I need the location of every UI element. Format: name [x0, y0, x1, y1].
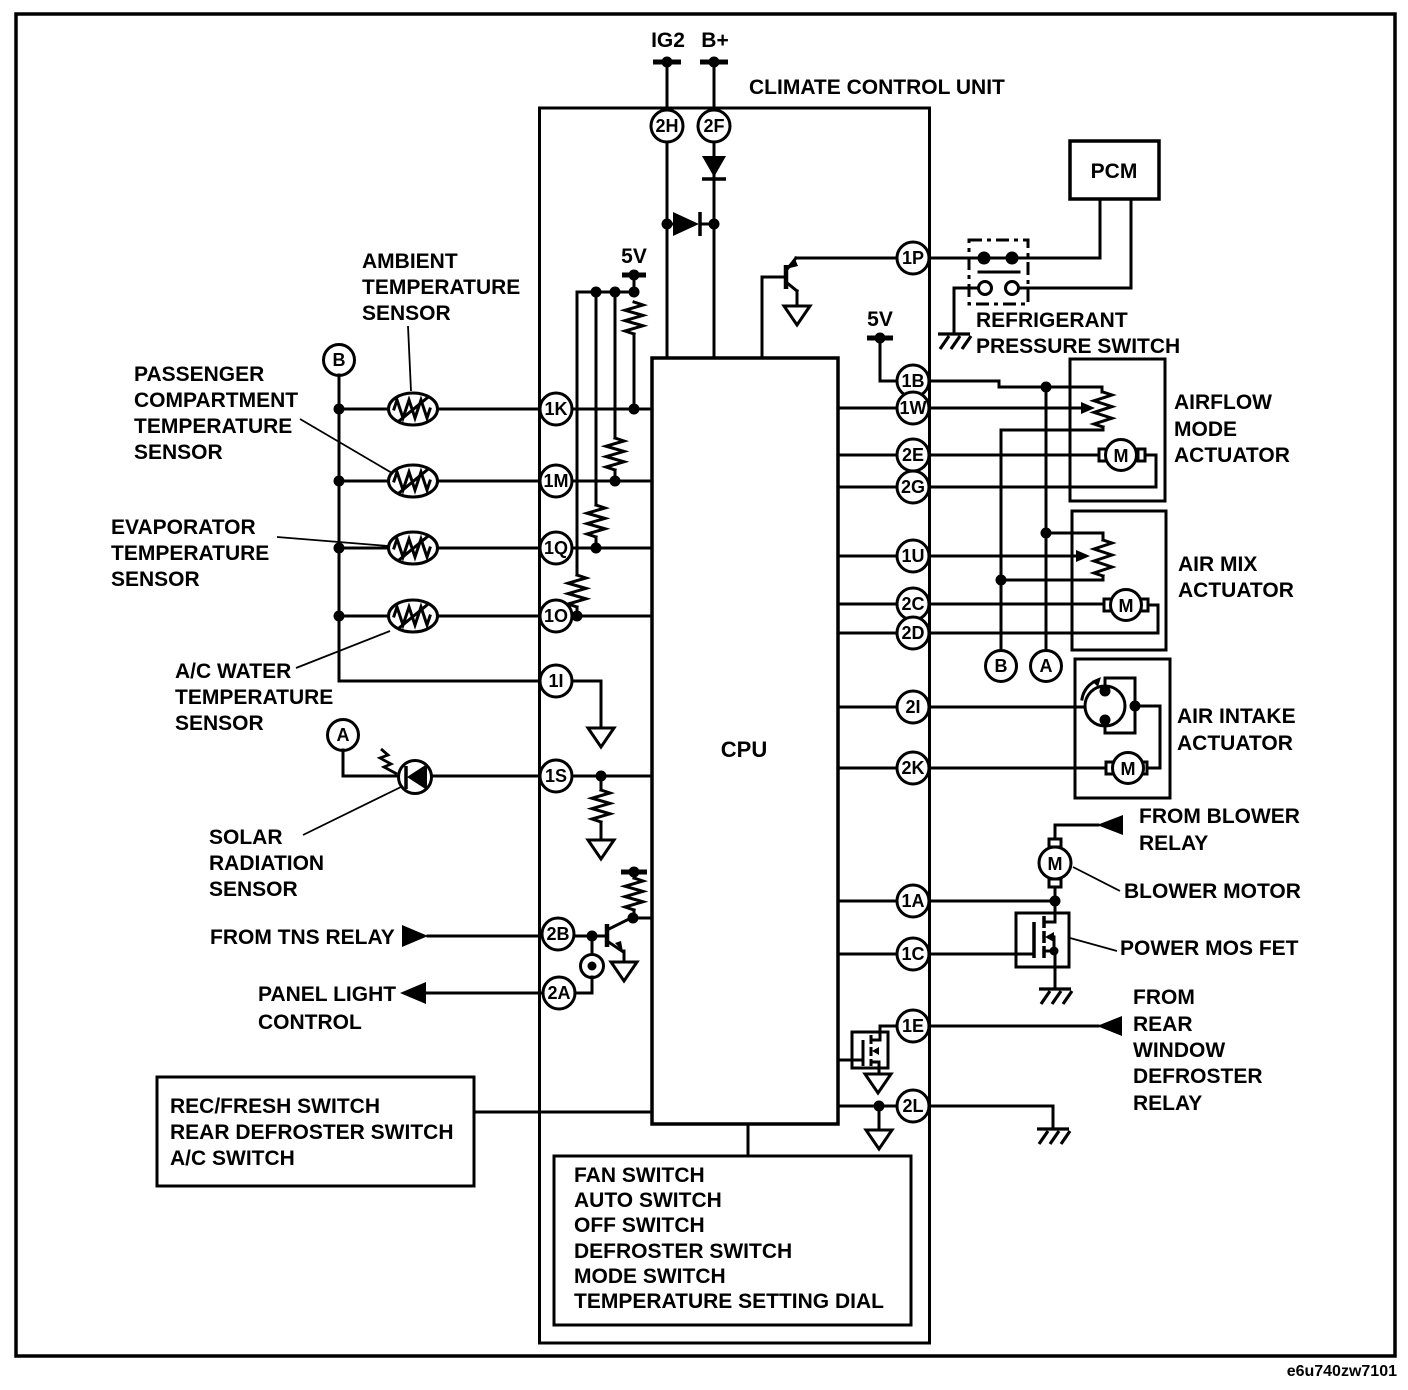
svg-text:PCM: PCM	[1091, 160, 1138, 183]
connector 1W	[897, 392, 929, 424]
svg-text:1Q: 1Q	[544, 538, 568, 558]
chassis ground (pressure switch)	[938, 334, 971, 349]
resistor R5 (1M pull-up)	[606, 438, 624, 470]
motor M1 (airflow mode)	[1099, 440, 1145, 471]
junction on 2H line	[662, 219, 673, 230]
wire pull-up leg 1Q	[595, 292, 598, 505]
svg-text:2I: 2I	[905, 697, 920, 717]
arrow from rear window defroster relay	[1097, 1016, 1122, 1036]
junction 1M row	[610, 476, 621, 487]
svg-text:M: M	[1121, 759, 1136, 779]
power MOSFET Q2 box	[1016, 913, 1069, 967]
svg-text:e6u740zw7101: e6u740zw7101	[1287, 1363, 1397, 1380]
label AIR MIX ACTUATOR	[1178, 553, 1294, 602]
wire R8 to collector row	[633, 910, 636, 918]
svg-text:CONTROL: CONTROL	[258, 1011, 362, 1034]
callout power MOS FET	[1070, 938, 1117, 951]
diode D2 between 2H and 2F lines	[667, 212, 714, 236]
svg-text:M: M	[1048, 854, 1063, 874]
svg-text:2B: 2B	[546, 924, 569, 944]
callout ambient sensor	[408, 326, 411, 391]
svg-text:AUTO SWITCH: AUTO SWITCH	[574, 1189, 722, 1212]
wire 1Q row	[339, 547, 652, 550]
svg-text:SENSOR: SENSOR	[134, 441, 223, 464]
svg-text:SENSOR: SENSOR	[175, 712, 264, 735]
wire 1W row to airflow wiper	[838, 407, 1083, 410]
svg-text:1K: 1K	[544, 399, 567, 419]
connector 1S	[540, 760, 572, 792]
arrow to panel light control	[400, 982, 426, 1004]
svg-text:2E: 2E	[902, 445, 924, 465]
svg-text:2L: 2L	[902, 1096, 923, 1116]
connector 1B	[897, 365, 929, 397]
junction 1O row	[572, 611, 583, 622]
motor M3 (air intake)	[1106, 753, 1147, 784]
wire 2B row from TNS arrow	[428, 935, 592, 938]
wire CPU to keypad box	[747, 1124, 750, 1156]
connector 2C	[897, 588, 929, 620]
svg-text:POWER MOS FET: POWER MOS FET	[1120, 937, 1299, 960]
svg-text:IG2: IG2	[651, 29, 685, 52]
pressure switch closed contacts	[978, 252, 1020, 273]
solar radiation sensor D3	[380, 749, 432, 794]
svg-text:1U: 1U	[901, 546, 924, 566]
connector 2D	[897, 617, 929, 649]
svg-text:2K: 2K	[901, 758, 924, 778]
wire 1E to MOSFET Q3 drain	[880, 1026, 913, 1032]
svg-text:PANEL LIGHT: PANEL LIGHT	[258, 983, 396, 1006]
svg-text:COMPARTMENT: COMPARTMENT	[134, 389, 298, 412]
junction rotary to motor	[1130, 701, 1141, 712]
svg-text:ACTUATOR: ACTUATOR	[1174, 444, 1290, 467]
svg-text:1P: 1P	[902, 248, 924, 268]
supply bar (panel light pull-up)	[621, 867, 647, 879]
PCM box	[1070, 141, 1159, 199]
connector 1I	[540, 665, 572, 697]
CPU U1 box	[652, 358, 838, 1124]
wire air mix resistor bottom	[1001, 576, 1103, 580]
wire node A to 1S row	[343, 750, 652, 776]
svg-text:2F: 2F	[703, 116, 724, 136]
svg-text:FAN SWITCH: FAN SWITCH	[574, 1164, 705, 1187]
junction node A feed	[1041, 382, 1052, 393]
svg-text:SENSOR: SENSOR	[209, 878, 298, 901]
callout blower motor	[1073, 867, 1120, 891]
wire 2A row from panel light arrow	[426, 992, 575, 995]
connector 1K	[540, 393, 572, 425]
terminal B+	[700, 29, 729, 68]
svg-text:SENSOR: SENSOR	[111, 568, 200, 591]
resistor R7 (1S)	[592, 790, 610, 822]
wire 1S junction down	[600, 776, 603, 790]
svg-text:CLIMATE CONTROL UNIT: CLIMATE CONTROL UNIT	[749, 76, 1005, 99]
junction 5V rail x596	[591, 287, 602, 298]
terminal IG2	[651, 29, 685, 68]
svg-text:MODE: MODE	[1174, 418, 1237, 441]
connector 1Q	[540, 532, 572, 564]
wire 2K row to air intake motor	[838, 767, 1111, 770]
svg-text:1A: 1A	[901, 891, 924, 911]
callout evaporator sensor	[277, 537, 388, 546]
wire pressure switch to ground	[954, 288, 978, 333]
wire to air mix resistor top	[1046, 533, 1103, 540]
wire rotary junction to motor M3	[1135, 706, 1160, 768]
5V terminal (1B pull-up)	[867, 308, 893, 344]
diode D1 on B+ line	[702, 156, 726, 179]
connector 2K	[897, 752, 929, 784]
connector 1E	[897, 1010, 929, 1042]
svg-text:1S: 1S	[545, 766, 567, 786]
resistor R1 (airflow position)	[1094, 392, 1112, 427]
junction 5V rail x634	[629, 287, 640, 298]
wire 1P row	[796, 257, 913, 260]
connector 2L	[897, 1090, 929, 1122]
label PANEL LIGHT CONTROL	[258, 983, 396, 1034]
svg-text:BLOWER MOTOR: BLOWER MOTOR	[1124, 880, 1301, 903]
wire R4 to 1Q row	[595, 537, 598, 548]
refrigerant pressure switch S1 dashed box	[969, 240, 1028, 304]
wire pull-up leg 1M	[614, 292, 617, 438]
svg-text:2A: 2A	[547, 983, 570, 1003]
wiper arrow 1U	[1076, 550, 1090, 562]
wire Q4 collector to CPU	[631, 917, 652, 920]
rotary position switch (air intake)	[1082, 677, 1135, 733]
connector 2F	[698, 110, 730, 142]
junction 1S row	[596, 771, 607, 782]
label A/C WATER TEMPERATURE SENSOR	[175, 660, 333, 735]
svg-text:1M: 1M	[543, 471, 568, 491]
svg-text:FROM: FROM	[1133, 986, 1195, 1009]
wire 2L junction to ground	[878, 1106, 881, 1130]
node B circle	[986, 651, 1017, 682]
wire 2I row to air intake actuator	[838, 706, 1085, 709]
wire IG2 to CPU top via 2H	[666, 62, 669, 358]
wire 1I row	[339, 680, 601, 683]
wire R6 to 1K row	[633, 334, 636, 409]
junction 1Q row	[591, 543, 602, 554]
label SOLAR RADIATION SENSOR	[209, 826, 324, 901]
MOSFET Q3 box (rear defroster driver)	[852, 1032, 888, 1068]
wire 1A row to blower motor	[838, 900, 1055, 903]
junction 2L	[874, 1101, 885, 1112]
junction 1A node	[1050, 896, 1061, 907]
svg-text:TEMPERATURE: TEMPERATURE	[362, 276, 520, 299]
svg-text:M: M	[1114, 446, 1129, 466]
wire R5 to 1M row	[614, 470, 617, 481]
svg-text:1O: 1O	[544, 606, 568, 626]
label keypad switches	[574, 1164, 884, 1313]
svg-text:REAR DEFROSTER SWITCH: REAR DEFROSTER SWITCH	[170, 1121, 454, 1144]
svg-text:DEFROSTER SWITCH: DEFROSTER SWITCH	[574, 1240, 792, 1263]
svg-text:RELAY: RELAY	[1139, 832, 1208, 855]
junction B bus 1M	[334, 476, 345, 487]
svg-text:AIR MIX: AIR MIX	[1178, 553, 1257, 576]
callout solar sensor	[303, 786, 403, 835]
svg-text:CPU: CPU	[721, 737, 767, 762]
svg-text:ACTUATOR: ACTUATOR	[1178, 579, 1294, 602]
connector 2B	[542, 918, 574, 950]
resistor R8 (Q4 collector)	[625, 878, 643, 910]
connector 1O	[540, 600, 572, 632]
ground (Q3 source)	[865, 1074, 891, 1093]
thermistor passenger compartment temperature sensor	[389, 465, 438, 497]
svg-text:A: A	[1040, 656, 1053, 676]
MOSFET Q3 symbol	[863, 1032, 880, 1074]
ground (Q1 collector)	[784, 306, 810, 325]
svg-text:1W: 1W	[900, 398, 927, 418]
svg-text:B: B	[995, 656, 1008, 676]
wire 1E to rear defroster arrow	[929, 1025, 1098, 1028]
wire pressure switch to PCM	[1019, 199, 1131, 288]
connector 2H	[651, 110, 683, 142]
svg-text:REAR: REAR	[1133, 1013, 1193, 1036]
svg-text:FROM BLOWER: FROM BLOWER	[1139, 805, 1300, 828]
svg-text:A: A	[337, 725, 350, 745]
keypad box	[554, 1156, 911, 1325]
junction on 2F line	[709, 219, 720, 230]
wire R7 to ground	[600, 822, 603, 840]
wire 5V to 1B	[880, 338, 913, 381]
junction 5V rail x615	[610, 287, 621, 298]
wire blower motor to relay arrow	[1055, 825, 1098, 839]
svg-text:FROM TNS RELAY: FROM TNS RELAY	[210, 926, 395, 949]
wire 2D row to air mix motor return	[838, 605, 1158, 633]
svg-text:TEMPERATURE: TEMPERATURE	[134, 415, 292, 438]
resistor R6 (1K pull-up)	[625, 302, 643, 334]
chassis ground (power MOSFET source)	[1039, 989, 1072, 1004]
svg-text:OFF SWITCH: OFF SWITCH	[574, 1214, 705, 1237]
svg-text:REFRIGERANT: REFRIGERANT	[976, 309, 1128, 332]
wire 1I to ground	[600, 681, 603, 728]
resistor R3 (1O pull-up)	[568, 575, 586, 607]
node A circle	[1031, 651, 1062, 682]
wire 1B to actuator resistors	[929, 381, 1102, 392]
svg-text:SOLAR: SOLAR	[209, 826, 283, 849]
label EVAPORATOR TEMPERATURE SENSOR	[111, 516, 269, 591]
arrow from blower relay	[1097, 815, 1123, 835]
thermistor ambient temperature sensor	[389, 393, 438, 425]
svg-text:5V: 5V	[621, 245, 647, 268]
svg-text:5V: 5V	[867, 308, 893, 331]
svg-text:1I: 1I	[548, 671, 563, 691]
connector 2G	[897, 471, 929, 503]
callout A/C water sensor	[296, 631, 390, 668]
wire B+ to CPU top via 2F	[713, 62, 716, 358]
svg-text:SENSOR: SENSOR	[362, 302, 451, 325]
connector 1A	[897, 885, 929, 917]
label AIRFLOW MODE ACTUATOR	[1174, 391, 1290, 467]
MOSFET Q2 symbol	[1034, 913, 1059, 988]
node B terminal circle (left)	[324, 345, 355, 376]
REC/FRESH switch box	[157, 1077, 474, 1186]
svg-text:PASSENGER: PASSENGER	[134, 363, 264, 386]
wire switch box to CPU	[474, 1111, 652, 1114]
callout passenger sensor	[300, 419, 392, 473]
svg-text:AMBIENT: AMBIENT	[362, 250, 458, 273]
wire 2L row	[838, 1105, 913, 1108]
svg-text:1B: 1B	[901, 371, 924, 391]
label REC/FRESH REAR DEFROSTER A/C SWITCH	[170, 1095, 454, 1170]
wire 1C row to MOSFET gate	[838, 953, 1034, 956]
svg-text:TEMPERATURE SETTING DIAL: TEMPERATURE SETTING DIAL	[574, 1290, 884, 1313]
ground (1I)	[588, 728, 614, 747]
junction B bus 1O	[334, 611, 345, 622]
connector 1U	[897, 540, 929, 572]
svg-text:TEMPERATURE: TEMPERATURE	[175, 686, 333, 709]
node A terminal circle (left)	[328, 720, 359, 751]
airflow mode actuator box	[1070, 359, 1165, 501]
connector 1P	[897, 242, 929, 274]
wire blower motor to MOSFET drain	[1054, 887, 1057, 913]
junction air mix resistor top	[1041, 528, 1052, 539]
svg-text:MODE SWITCH: MODE SWITCH	[574, 1265, 726, 1288]
wire 2L to chassis ground	[929, 1106, 1053, 1128]
svg-text:RELAY: RELAY	[1133, 1092, 1202, 1115]
svg-text:2C: 2C	[901, 594, 924, 614]
wire CPU to Q3 gate	[838, 1059, 863, 1062]
motor M4 (blower)	[1039, 839, 1071, 887]
svg-text:1E: 1E	[902, 1016, 924, 1036]
label AMBIENT TEMPERATURE SENSOR	[362, 250, 520, 325]
svg-text:ACTUATOR: ACTUATOR	[1177, 732, 1293, 755]
ground (2L internal)	[866, 1130, 892, 1149]
wire 1O row	[339, 615, 652, 618]
svg-text:TEMPERATURE: TEMPERATURE	[111, 542, 269, 565]
resistor R4 (1Q pull-up)	[587, 505, 605, 537]
label FROM REAR WINDOW DEFROSTER RELAY	[1133, 986, 1263, 1115]
transistor Q1 (A/C request)	[762, 258, 798, 358]
junction 2B node	[587, 931, 598, 942]
wiper arrow 1W	[1081, 402, 1095, 414]
wire 1P to PCM	[929, 199, 1100, 258]
svg-text:WINDOW: WINDOW	[1133, 1039, 1225, 1062]
svg-text:A/C SWITCH: A/C SWITCH	[170, 1147, 295, 1170]
wire 2C row to air mix motor	[838, 603, 1109, 606]
motor M2 (air mix)	[1104, 590, 1148, 621]
wire 1K row	[339, 408, 652, 411]
ground (1S)	[588, 840, 614, 859]
label FROM BLOWER RELAY	[1139, 805, 1300, 855]
wire 2B junction to Q4 base	[592, 935, 607, 938]
svg-text:PRESSURE SWITCH: PRESSURE SWITCH	[976, 335, 1180, 358]
wire pull-up leg 1O	[576, 292, 579, 575]
junction 1K row	[629, 404, 640, 415]
connector 1M	[540, 465, 572, 497]
label AIR INTAKE ACTUATOR	[1177, 705, 1296, 755]
svg-text:EVAPORATOR: EVAPORATOR	[111, 516, 256, 539]
svg-text:AIR INTAKE: AIR INTAKE	[1177, 705, 1296, 728]
wire airflow resistor bottom to node B vertical	[1001, 427, 1103, 666]
arrow from TNS relay	[402, 925, 428, 947]
wire 1U row to air mix wiper	[838, 555, 1078, 558]
junction B bus 1Q	[334, 543, 345, 554]
wire 1M row	[339, 480, 652, 483]
air mix actuator box	[1072, 511, 1166, 650]
wire node A vertical	[1045, 387, 1048, 666]
svg-text:B+: B+	[701, 29, 728, 52]
connector 2E	[897, 439, 929, 471]
thermistor evaporator temperature sensor	[389, 532, 438, 564]
wire node B bus	[338, 375, 341, 681]
svg-text:2H: 2H	[655, 116, 678, 136]
svg-text:REC/FRESH SWITCH: REC/FRESH SWITCH	[170, 1095, 380, 1118]
thermistor A/C water temperature sensor	[389, 600, 438, 632]
svg-text:2G: 2G	[901, 477, 925, 497]
climate control unit box	[540, 108, 930, 1343]
svg-text:RADIATION: RADIATION	[209, 852, 324, 875]
svg-text:2D: 2D	[901, 623, 924, 643]
transistor Q4 (panel light driver)	[607, 918, 631, 962]
ground (Q4 emitter)	[611, 962, 637, 981]
svg-text:B: B	[333, 350, 346, 370]
junction Q4 collector row	[628, 913, 639, 924]
svg-text:1C: 1C	[901, 944, 924, 964]
panel light bulb L1	[575, 936, 604, 993]
svg-text:A/C WATER: A/C WATER	[175, 660, 291, 683]
junction air mix resistor bottom	[996, 575, 1007, 586]
label REFRIGERANT PRESSURE SWITCH	[976, 309, 1180, 358]
air intake actuator box	[1075, 659, 1170, 798]
label PASSENGER COMPARTMENT TEMPERATURE SENSOR	[134, 363, 298, 464]
connector 1C	[897, 938, 929, 970]
connector 2A	[543, 977, 575, 1009]
resistor R2 (air mix position)	[1094, 540, 1112, 576]
svg-text:AIRFLOW: AIRFLOW	[1174, 391, 1272, 414]
wire R3 to 1O row	[576, 607, 579, 616]
chassis ground (2L)	[1037, 1129, 1070, 1144]
svg-text:DEFROSTER: DEFROSTER	[1133, 1065, 1263, 1088]
wire 2E row to airflow motor	[838, 454, 1104, 457]
wire 2G row to airflow motor return	[838, 455, 1156, 487]
junction B bus 1K	[334, 404, 345, 415]
pressure switch open contacts	[979, 282, 1019, 295]
5V terminal (sensor pull-ups)	[621, 245, 647, 281]
svg-text:M: M	[1119, 596, 1134, 616]
connector 2I	[897, 691, 929, 723]
wire 5V rail	[577, 275, 634, 292]
